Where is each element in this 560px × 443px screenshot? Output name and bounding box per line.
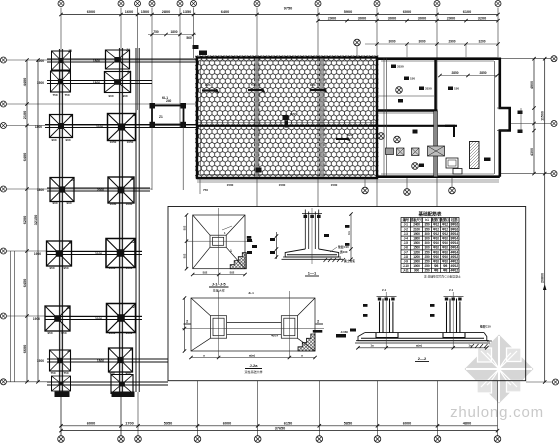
svg-text:Ф12: Ф12: [433, 223, 439, 227]
right axis bubbles: [551, 56, 557, 62]
svg-text:宽100: 宽100: [339, 250, 348, 254]
raft slab hex hatch: [195, 56, 379, 179]
svg-text:1200: 1200: [413, 250, 420, 254]
svg-text:4Ф14: 4Ф14: [271, 334, 278, 338]
svg-text:3000: 3000: [388, 40, 395, 44]
svg-text:J2: J2: [131, 240, 135, 244]
svg-text:900: 900: [125, 371, 130, 375]
svg-text:J-5: J-5: [404, 241, 409, 245]
svg-text:750: 750: [203, 188, 208, 192]
svg-text:350: 350: [425, 223, 430, 227]
bottom dimension lines: [61, 425, 498, 427]
svg-text:750: 750: [63, 371, 68, 375]
hooked bars under columns: [376, 333, 398, 338]
bottom axis bubbles: [58, 436, 501, 443]
svg-text:1350: 1350: [183, 10, 191, 14]
svg-text:20800: 20800: [541, 273, 545, 283]
fixtures: [446, 158, 458, 168]
svg-text:1800: 1800: [37, 188, 44, 192]
svg-text:300: 300: [425, 237, 430, 241]
svg-text:Ф12: Ф12: [433, 227, 439, 231]
svg-text:a(m): a(m): [249, 353, 255, 357]
svg-text:1050: 1050: [127, 140, 134, 144]
svg-text:Ф10: Ф10: [433, 260, 439, 264]
svg-text:Z-1: Z-1: [382, 288, 387, 292]
svg-text:3150: 3150: [397, 65, 404, 69]
svg-text:1050: 1050: [110, 140, 117, 144]
ground hatch 1-1 right side: [324, 258, 346, 262]
svg-text:J4: J4: [127, 70, 131, 74]
svg-text:8Ф14: 8Ф14: [450, 232, 458, 236]
svg-text:KZ2: KZ2: [347, 133, 353, 137]
svg-text:编号: 编号: [403, 217, 410, 222]
svg-text:1800: 1800: [97, 359, 104, 363]
svg-text:1600: 1600: [125, 10, 133, 14]
svg-text:3000: 3000: [388, 16, 396, 20]
svg-text:B/2: B/2: [203, 270, 208, 274]
svg-text:2100: 2100: [23, 111, 27, 119]
top axis bubbles row: [58, 1, 501, 7]
left dim chain 1-1: [276, 232, 278, 259]
svg-text:300: 300: [425, 246, 430, 250]
svg-text:950: 950: [49, 266, 54, 270]
svg-text:2850: 2850: [451, 71, 458, 75]
svg-text:垫层C10: 垫层C10: [480, 325, 491, 329]
svg-text:J5: J5: [67, 71, 71, 75]
svg-text:1500: 1500: [279, 183, 286, 187]
svg-text:750: 750: [153, 30, 159, 34]
raft mid wall line: [197, 125, 457, 127]
footing row1 left: [52, 51, 71, 70]
equipment small squares: [397, 148, 405, 156]
svg-text:750: 750: [64, 93, 69, 97]
footing row6 right: [107, 304, 136, 333]
svg-text:11500: 11500: [541, 111, 545, 121]
footing row1 right: [106, 50, 130, 69]
svg-text:Ф10: Ф10: [442, 255, 448, 259]
ground hatch right 2-2: [471, 344, 488, 348]
small labels in rooms: [391, 65, 491, 168]
J-1 dimension lines: [193, 274, 245, 276]
svg-text:注:基础垫层均为C10素混凝土: 注:基础垫层均为C10素混凝土: [424, 275, 461, 279]
svg-text:750: 750: [50, 371, 55, 375]
notch inner lines: [497, 107, 507, 109]
interior wall vertical band lower: [434, 111, 438, 177]
J-2 center lines: [218, 291, 220, 357]
svg-text:6000: 6000: [87, 10, 95, 14]
svg-text:6450: 6450: [23, 279, 27, 287]
base plate 2-2: [365, 332, 484, 334]
svg-text:2000: 2000: [97, 188, 104, 192]
svg-text:Ф10: Ф10: [442, 237, 448, 241]
svg-text:350: 350: [425, 227, 430, 231]
svg-text:h1: h1: [347, 231, 351, 235]
svg-text:Ф10: Ф10: [442, 241, 448, 245]
column rebar dowels: [305, 210, 318, 250]
svg-text:1500: 1500: [37, 81, 44, 85]
svg-text:1000: 1000: [413, 260, 420, 264]
svg-text:Ф8: Ф8: [434, 269, 439, 273]
svg-text:900: 900: [51, 138, 56, 142]
svg-text:4400: 4400: [23, 78, 27, 86]
svg-text:900: 900: [414, 269, 419, 273]
svg-text:300: 300: [425, 232, 430, 236]
footing under-dimension texts: [47, 93, 133, 375]
interior thin double wall x385: [383, 58, 385, 176]
svg-text:底板尺寸: 底板尺寸: [409, 217, 423, 222]
svg-text:4Ф12: 4Ф12: [450, 260, 458, 264]
svg-text:Ф10: Ф10: [433, 250, 439, 254]
svg-text:100: 100: [487, 339, 492, 343]
dim marks column 1-1 right area: [430, 304, 435, 307]
bottom verticals: [61, 381, 498, 436]
footing row6 left: [45, 306, 70, 331]
svg-text:1500: 1500: [413, 241, 420, 245]
wall band grid D: [319, 59, 324, 178]
J-1 center lines: [218, 208, 220, 284]
svg-text:Ф10: Ф10: [442, 260, 448, 264]
J-1 leader marks: [247, 236, 252, 239]
J-2 stepped rebar detail: [298, 334, 315, 351]
leader circle above plan: [354, 39, 361, 46]
svg-text:1: 1: [230, 249, 232, 253]
horizontal strip beams: [45, 59, 196, 385]
svg-text:J3: J3: [71, 178, 75, 182]
svg-text:J-6: J-6: [404, 246, 409, 250]
svg-text:3150: 3150: [425, 87, 432, 91]
svg-text:1800: 1800: [93, 59, 100, 63]
svg-text:J5: J5: [68, 49, 72, 53]
svg-text:1000: 1000: [110, 202, 117, 206]
svg-text:Ф10: Ф10: [433, 237, 439, 241]
svg-text:9750: 9750: [284, 7, 292, 11]
svg-text:6150: 6150: [284, 422, 292, 426]
left axis bubbles: [0, 57, 6, 385]
svg-text:250: 250: [425, 255, 430, 259]
svg-text:1050: 1050: [126, 266, 133, 270]
svg-text:1900: 1900: [413, 232, 420, 236]
tall hatched shaft: [470, 142, 480, 169]
svg-text:8Ф16: 8Ф16: [450, 223, 458, 227]
svg-text:1—1: 1—1: [308, 271, 317, 276]
svg-text:2—2: 2—2: [418, 356, 427, 361]
dim line above rooms: [365, 43, 498, 45]
svg-text:37650: 37650: [275, 426, 286, 430]
svg-text:1a: 1a: [370, 344, 374, 348]
svg-text:1050: 1050: [109, 331, 116, 335]
svg-text:J-1~J-5: J-1~J-5: [212, 282, 227, 287]
interior wall vertical thick: [434, 58, 436, 111]
svg-text:1800: 1800: [413, 237, 420, 241]
svg-text:KZ1: KZ1: [310, 83, 316, 87]
svg-text:2100: 2100: [96, 125, 103, 129]
center lines 2-2: [385, 292, 387, 348]
raft inner edge line: [201, 61, 374, 175]
svg-text:1500: 1500: [413, 246, 420, 250]
svg-text:J-2a: J-2a: [249, 363, 258, 368]
svg-text:Ф12: Ф12: [442, 232, 448, 236]
svg-text:3000: 3000: [418, 40, 425, 44]
svg-text:8Ф16: 8Ф16: [450, 227, 458, 231]
svg-text:Ф8: Ф8: [434, 264, 439, 268]
svg-text:250: 250: [425, 264, 430, 268]
svg-text:垫层C10: 垫层C10: [338, 245, 349, 249]
vertical strip beams: [59, 48, 139, 393]
watermark logo pinwheel: [465, 335, 534, 404]
svg-text:1000: 1000: [126, 202, 133, 206]
footing row2 right: [105, 72, 131, 93]
J-2 dimension lines: [191, 357, 315, 359]
svg-text:6000: 6000: [87, 422, 95, 426]
svg-text:6Ф14: 6Ф14: [450, 246, 458, 250]
svg-text:1500: 1500: [331, 183, 338, 187]
svg-text:4Ф12: 4Ф12: [450, 255, 458, 259]
svg-text:900: 900: [65, 138, 70, 142]
floor drain symbols: [396, 87, 403, 94]
footing row2 left: [51, 71, 71, 92]
svg-text:1800: 1800: [35, 125, 42, 129]
detail J-1 footing plan: [193, 215, 245, 269]
svg-text:2900: 2900: [328, 16, 336, 20]
svg-text:5900: 5900: [344, 10, 352, 14]
svg-text:柱筋: 柱筋: [451, 217, 458, 222]
below plan double lines: [197, 179, 499, 181]
svg-text:4300: 4300: [530, 148, 534, 156]
svg-text:560: 560: [186, 36, 192, 40]
svg-text:J4: J4: [126, 48, 130, 52]
svg-text:6200: 6200: [23, 216, 27, 224]
leader circles below plan: [362, 187, 369, 194]
svg-text:250: 250: [425, 250, 430, 254]
svg-text:Ф12: Ф12: [433, 232, 439, 236]
corner marks top-left of raft: [193, 45, 199, 49]
svg-text:J-3: J-3: [404, 232, 409, 236]
svg-text:B/2: B/2: [230, 270, 235, 274]
svg-text:Ф8: Ф8: [443, 269, 448, 273]
svg-text:J-7: J-7: [404, 250, 409, 254]
svg-text:1800: 1800: [93, 81, 100, 85]
svg-text:950: 950: [47, 331, 52, 335]
svg-text:Ф10: Ф10: [433, 241, 439, 245]
right dimension lines: [533, 59, 535, 174]
svg-text:J-2: J-2: [404, 227, 409, 231]
svg-text:32150: 32150: [34, 215, 38, 226]
svg-text:6000: 6000: [403, 10, 411, 14]
svg-text:J-1: J-1: [404, 223, 409, 227]
svg-text:250: 250: [425, 269, 430, 273]
right notch dim marks: [518, 111, 523, 115]
footing row3 left: [50, 115, 73, 138]
svg-text:J-4: J-4: [404, 237, 409, 241]
column markers in raft: [202, 89, 417, 173]
svg-text:J5: J5: [67, 349, 71, 353]
svg-text:250: 250: [425, 260, 430, 264]
svg-text:3000: 3000: [358, 16, 366, 20]
svg-text:J4: J4: [129, 348, 133, 352]
svg-text:J-8: J-8: [404, 255, 409, 259]
svg-text:1050: 1050: [109, 266, 116, 270]
footing row5 right: [106, 239, 135, 268]
svg-text:1500: 1500: [227, 183, 234, 187]
svg-text:1900: 1900: [33, 317, 40, 321]
footing row8 right: [111, 375, 133, 394]
svg-text:1500: 1500: [141, 10, 149, 14]
svg-text:zhulong.com: zhulong.com: [450, 404, 544, 421]
top dimension line 1: [61, 15, 498, 21]
svg-text:950: 950: [61, 331, 66, 335]
svg-text:J3: J3: [68, 241, 72, 245]
rebar in footing: [287, 254, 337, 256]
right dim 1-1: [350, 214, 352, 259]
svg-text:3000: 3000: [418, 16, 426, 20]
center line: [311, 208, 313, 264]
footing row4 right: [108, 177, 134, 203]
svg-text:1200: 1200: [413, 255, 420, 259]
top dimension texts: [87, 7, 486, 21]
svg-text:素土夯实: 素土夯实: [344, 259, 355, 263]
svg-text:2900: 2900: [447, 16, 455, 20]
svg-text:4900: 4900: [530, 81, 534, 89]
svg-text:4Ф12: 4Ф12: [450, 264, 458, 268]
footing dimension marks and labels: [33, 59, 104, 363]
svg-text:J2: J2: [130, 177, 134, 181]
rebar caps 2-2: [378, 298, 381, 301]
svg-text:Ф10: Ф10: [433, 255, 439, 259]
left end marks 2-2: [350, 329, 356, 332]
left grid horizontals: [7, 60, 197, 382]
leader texts 1-1 right: [338, 245, 355, 263]
footing row8 left: [52, 376, 71, 391]
interior wall horizontal: [377, 109, 438, 111]
rebar in plate: [361, 337, 484, 339]
svg-text:KZ1: KZ1: [205, 83, 211, 87]
svg-text:6400: 6400: [221, 10, 229, 14]
svg-text:J-10: J-10: [403, 264, 409, 268]
svg-text:750: 750: [52, 93, 57, 97]
svg-text:Ф12: Ф12: [442, 223, 448, 227]
svg-text:B/2: B/2: [183, 253, 187, 258]
svg-text:6400: 6400: [23, 153, 27, 161]
right grid stub lines: [501, 59, 552, 382]
detail J-2 double footing plan: [191, 298, 315, 351]
svg-text:KZ2: KZ2: [290, 112, 296, 116]
columns: [380, 299, 460, 333]
svg-text:J2: J2: [131, 305, 135, 309]
footing row7 right: [109, 348, 133, 372]
footing body 1-1: [285, 249, 339, 257]
svg-text:1900: 1900: [34, 252, 41, 256]
svg-text:2100: 2100: [95, 252, 102, 256]
svg-text:6000: 6000: [403, 422, 411, 426]
svg-text:基础配筋表: 基础配筋表: [418, 211, 442, 218]
svg-text:a(m): a(m): [416, 344, 422, 348]
svg-text:Z-1: Z-1: [449, 288, 454, 292]
pile caps under bottom footings: [55, 392, 70, 398]
svg-text:6100: 6100: [463, 10, 471, 14]
svg-text:Ф12: Ф12: [442, 227, 448, 231]
svg-text:Ф10: Ф10: [442, 246, 448, 250]
svg-text:1700: 1700: [125, 422, 133, 426]
svg-text:KZ1: KZ1: [251, 83, 257, 87]
upper room dim line: [440, 75, 497, 77]
svg-text:3200: 3200: [478, 16, 486, 20]
svg-text:1500: 1500: [37, 59, 44, 63]
basement outer walls right part: [377, 57, 499, 60]
svg-text:配筋②: 配筋②: [440, 217, 450, 222]
dims 2-2: [358, 347, 487, 349]
svg-text:h1: h1: [425, 218, 429, 222]
svg-text:300: 300: [425, 241, 430, 245]
svg-text:900: 900: [66, 201, 71, 205]
svg-text:150: 150: [454, 87, 459, 91]
svg-text:900: 900: [122, 94, 127, 98]
top grid verticals: [61, 8, 498, 436]
svg-text:Ф8: Ф8: [443, 264, 448, 268]
footing row3 right: [108, 114, 136, 141]
svg-text:900: 900: [109, 371, 114, 375]
svg-text:5850: 5850: [344, 422, 352, 426]
leader marks between J1 and 1-1: [247, 239, 252, 242]
svg-text:4800: 4800: [463, 422, 471, 426]
detail area border: [168, 207, 526, 381]
svg-text:6600: 6600: [23, 345, 27, 353]
svg-text:2850: 2850: [479, 71, 486, 75]
svg-text:8Ф14: 8Ф14: [450, 237, 458, 241]
footing schedule table: [401, 218, 459, 273]
svg-text:Ф10: Ф10: [433, 246, 439, 250]
svg-text:1000: 1000: [413, 264, 420, 268]
svg-text:2100: 2100: [413, 227, 420, 231]
svg-text:J-11: J-11: [403, 269, 409, 273]
frame corner columns: [150, 103, 156, 109]
raft border thick: [197, 58, 377, 179]
svg-text:JL-1: JL-1: [248, 291, 254, 295]
svg-text:1500: 1500: [37, 359, 44, 363]
dim marks left of plan top: [153, 30, 192, 40]
svg-text:3200: 3200: [478, 40, 485, 44]
svg-text:J-9: J-9: [404, 260, 409, 264]
footing row4 left: [50, 178, 74, 202]
footing row7 left: [50, 350, 71, 371]
svg-text:4Ф12: 4Ф12: [450, 269, 458, 273]
svg-text:2900: 2900: [448, 40, 455, 44]
J-1 stepped rebar detail: [230, 253, 246, 269]
svg-text:1a: 1a: [468, 344, 472, 348]
svg-text:1050: 1050: [126, 331, 133, 335]
svg-text:J2: J2: [132, 113, 136, 117]
svg-text:6000: 6000: [223, 422, 231, 426]
wall band grid C: [254, 59, 259, 178]
left dimension lines: [27, 60, 38, 382]
svg-text:5950: 5950: [164, 422, 172, 426]
svg-text:150: 150: [410, 77, 415, 81]
svg-text:2400: 2400: [413, 223, 420, 227]
svg-text:-0.060: -0.060: [340, 330, 348, 334]
svg-text:240: 240: [166, 99, 172, 103]
svg-text:2100: 2100: [95, 317, 102, 321]
frame dim texts: [159, 96, 172, 119]
svg-text:900: 900: [108, 94, 113, 98]
svg-text:Z1: Z1: [159, 115, 163, 119]
svg-text:双柱基础大样: 双柱基础大样: [244, 369, 262, 374]
small dim marks below plan: [227, 183, 338, 187]
svg-text:4Ф14: 4Ф14: [450, 250, 458, 254]
svg-text:2800: 2800: [162, 10, 170, 14]
svg-text:B/2: B/2: [183, 225, 187, 230]
svg-text:900: 900: [52, 201, 57, 205]
frame beams: [152, 106, 184, 125]
svg-text:6Ф14: 6Ф14: [450, 241, 458, 245]
